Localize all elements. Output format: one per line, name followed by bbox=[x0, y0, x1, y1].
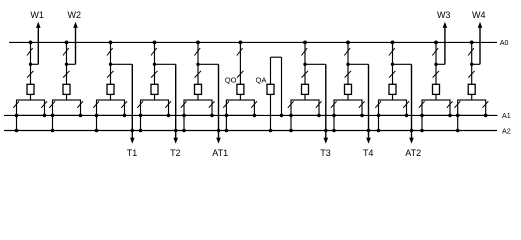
arrowhead T1 bbox=[130, 138, 135, 144]
svg-text:W1: W1 bbox=[30, 10, 44, 20]
junction dot leg 9 jog bbox=[391, 63, 394, 66]
corner slash right, winding 8 bbox=[359, 101, 365, 108]
corner slash left, winding 6 bbox=[223, 101, 229, 108]
arrowhead W4 bbox=[478, 22, 483, 28]
jog wire leg 1 to branch W1 bbox=[31, 63, 39, 65]
junction dot winding 7 on A2 bbox=[289, 129, 293, 133]
switch slash lower, leg 7 bbox=[302, 71, 308, 78]
junction dot T1 on A2 bbox=[131, 129, 134, 132]
terminal line W1 (up arrow) bbox=[37, 28, 39, 64]
junction dots winding 9 on A1 bbox=[377, 114, 381, 118]
wire winding 3 left side down to A2 bbox=[96, 115, 98, 130]
junction dot winding 11 on A2 bbox=[456, 129, 460, 133]
junction dot leg 11 jog bbox=[470, 63, 473, 66]
terminal line AT2 (down arrow) bbox=[411, 64, 413, 137]
svg-text:QO: QO bbox=[225, 75, 237, 84]
switch slash upper, leg 7 bbox=[301, 48, 307, 55]
wire winding 9 left side down to A2 bbox=[378, 115, 380, 130]
contact square leg 4 bbox=[151, 84, 158, 94]
contact square leg 9 bbox=[389, 84, 396, 94]
junction dot QA drop on A1 bbox=[280, 114, 284, 118]
tap leg 7: wire from bus A0 down to contact bbox=[304, 42, 306, 84]
switch slash lower, leg 4 bbox=[151, 71, 157, 78]
svg-text:T1: T1 bbox=[127, 148, 138, 158]
junction dots winding 5 on A1 bbox=[182, 114, 186, 118]
junction dot QA riser on A2 bbox=[269, 129, 273, 133]
terminal line T1 (down arrow) bbox=[131, 64, 133, 137]
junction dot winding 5 on A2 bbox=[182, 129, 186, 133]
winding rectangle leg 11 bbox=[458, 100, 486, 115]
switch slash upper, leg 8 bbox=[344, 48, 350, 55]
junction dot leg 8 on A0 bbox=[346, 41, 350, 45]
corner slash left, winding 3 bbox=[93, 101, 99, 108]
contact square leg 3 bbox=[107, 84, 114, 94]
junction dot leg 2 jog bbox=[65, 63, 68, 66]
contact square QA bbox=[267, 84, 274, 94]
corner slash left, winding 7 bbox=[288, 101, 294, 108]
junction dot leg 10 on A0 bbox=[434, 41, 438, 45]
contact square leg 10 bbox=[433, 84, 440, 94]
corner slash left, winding 8 bbox=[331, 101, 337, 108]
link wire square to winding, leg 3 bbox=[110, 94, 112, 100]
wire winding 1 left side down to A2 bbox=[16, 115, 18, 130]
switch slash upper, leg 9 bbox=[389, 48, 395, 55]
terminal line T4 (down arrow) bbox=[368, 64, 370, 137]
junction dot leg 11 on A0 bbox=[470, 41, 474, 45]
svg-text:A1: A1 bbox=[502, 111, 511, 120]
junction dot AT1 on A2 bbox=[217, 129, 220, 132]
junction dot leg 3 jog bbox=[109, 63, 112, 66]
svg-text:A0: A0 bbox=[500, 38, 509, 47]
link wire square to winding, leg 10 bbox=[435, 94, 437, 100]
link wire square to winding, leg 9 bbox=[392, 94, 394, 100]
switch slash lower, leg 1 bbox=[27, 71, 33, 78]
bus A0 (top rail) bbox=[9, 41, 497, 43]
contact square leg 2 bbox=[63, 84, 70, 94]
junction dots winding 2 on A1 bbox=[51, 114, 55, 118]
winding rectangle leg 3 bbox=[97, 100, 125, 115]
winding rectangle leg 2 bbox=[53, 100, 81, 115]
switch slash upper, leg 11 bbox=[468, 48, 474, 55]
arrowhead T2 bbox=[173, 138, 178, 144]
link wire square to winding, leg 1 bbox=[30, 94, 32, 100]
winding rectangle leg 6 bbox=[226, 100, 254, 115]
switch slash upper, leg 5 bbox=[194, 48, 200, 55]
corner slash left, winding 1 bbox=[13, 101, 19, 108]
svg-text:W3: W3 bbox=[437, 10, 451, 20]
tap leg 4: wire from bus A0 down to contact bbox=[154, 42, 156, 84]
tap leg 10: wire from bus A0 down to contact bbox=[435, 42, 437, 84]
junction dot leg 10 jog bbox=[434, 63, 437, 66]
corner slash right, winding 7 bbox=[316, 101, 322, 108]
junction dots winding 6 on A1 bbox=[225, 114, 229, 118]
link wire square to winding, leg 8 bbox=[347, 94, 349, 100]
link wire square to winding, leg 6 bbox=[239, 94, 241, 100]
junction dot T3 on A2 bbox=[324, 129, 327, 132]
svg-text:AT1: AT1 bbox=[212, 148, 228, 158]
junction dot leg 4 on A0 bbox=[153, 41, 157, 45]
arrowhead W1 bbox=[36, 22, 41, 28]
jog wire leg 11 to branch W4 bbox=[472, 63, 480, 65]
terminal line W3 (up arrow) bbox=[444, 28, 446, 64]
corner slash left, winding 9 bbox=[375, 101, 381, 108]
contactor QA: left riser wire from A2 bbox=[270, 57, 272, 84]
junction dots winding 1 on A1 bbox=[15, 114, 19, 118]
switch slash lower, leg 9 bbox=[389, 71, 395, 78]
svg-text:T2: T2 bbox=[170, 148, 181, 158]
switch slash lower, leg 3 bbox=[107, 71, 113, 78]
junction dot winding 6 on A2 bbox=[225, 129, 229, 133]
junction dots winding 8 on A1 bbox=[332, 114, 336, 118]
arrowhead T3 bbox=[324, 138, 329, 144]
junction dot winding 4 on A2 bbox=[139, 129, 143, 133]
svg-text:A2: A2 bbox=[502, 127, 511, 136]
corner slash right, winding 5 bbox=[209, 101, 215, 108]
junction dot leg 4 jog bbox=[153, 63, 156, 66]
switch slash lower, leg 5 bbox=[195, 71, 201, 78]
jog wire leg 4 to branch T2 bbox=[155, 63, 176, 65]
corner slash left, winding 5 bbox=[181, 101, 187, 108]
corner slash left, winding 2 bbox=[49, 101, 55, 108]
arrowhead AT2 bbox=[409, 138, 414, 144]
contactor QA right drop wire to A1 bbox=[281, 57, 283, 115]
jog wire leg 10 to branch W3 bbox=[436, 63, 445, 65]
tap leg 11: wire from bus A0 down to contact bbox=[471, 42, 473, 84]
junction dot leg 5 jog bbox=[196, 63, 199, 66]
switch slash upper, leg 3 bbox=[107, 48, 113, 55]
wire winding 5 left side down to A2 bbox=[183, 115, 185, 130]
corner slash right, winding 6 bbox=[251, 101, 257, 108]
winding rectangle leg 8 bbox=[334, 100, 362, 115]
winding rectangle leg 4 bbox=[141, 100, 169, 115]
junction dot leg 5 on A0 bbox=[196, 41, 200, 45]
svg-text:T3: T3 bbox=[320, 148, 331, 158]
wire winding 8 left side down to A2 bbox=[333, 115, 335, 130]
corner slash right, winding 11 bbox=[483, 101, 489, 108]
winding rectangle leg 1 bbox=[17, 100, 45, 115]
svg-text:AT2: AT2 bbox=[405, 148, 421, 158]
jog wire leg 3 to branch T1 bbox=[111, 63, 133, 65]
terminal line T2 (down arrow) bbox=[175, 64, 177, 137]
contactor QA loop top wire bbox=[271, 56, 282, 58]
link wire square to winding, leg 5 bbox=[197, 94, 199, 100]
winding rectangle leg 10 bbox=[422, 100, 450, 115]
winding rectangle leg 7 bbox=[291, 100, 319, 115]
bus A2 (bottom rail) bbox=[4, 130, 497, 132]
junction dot leg 2 on A0 bbox=[65, 41, 69, 45]
switch slash lower, leg 6 bbox=[237, 71, 243, 78]
contact square leg 8 bbox=[345, 84, 352, 94]
corner slash right, winding 2 bbox=[77, 101, 83, 108]
corner slash left, winding 4 bbox=[137, 101, 143, 108]
wire winding 10 left side down to A2 bbox=[421, 115, 423, 130]
junction dot leg 8 jog bbox=[346, 63, 349, 66]
arrowhead T4 bbox=[366, 138, 371, 144]
corner slash right, winding 10 bbox=[447, 101, 453, 108]
junction dot leg 6 on A0 bbox=[239, 41, 243, 45]
junction dot leg 1 jog bbox=[29, 63, 32, 66]
bus A1 (middle rail) bbox=[4, 114, 498, 116]
jog wire leg 9 to branch AT2 bbox=[393, 63, 412, 65]
corner slash right, winding 9 bbox=[403, 101, 409, 108]
svg-text:QA: QA bbox=[256, 75, 268, 84]
winding rectangle leg 5 bbox=[184, 100, 212, 115]
junction dot AT2 on A2 bbox=[410, 129, 413, 132]
corner slash right, winding 4 bbox=[165, 101, 171, 108]
arrowhead W3 bbox=[443, 22, 448, 28]
switch slash lower, leg 8 bbox=[345, 71, 351, 78]
contact square leg 7 bbox=[302, 84, 309, 94]
terminal line T3 (down arrow) bbox=[325, 64, 327, 137]
junction dot leg 7 on A0 bbox=[303, 41, 307, 45]
junction dots winding 7 on A1 bbox=[289, 114, 293, 118]
junction dot winding 8 on A2 bbox=[332, 129, 336, 133]
wire winding 11 left side down to A2 bbox=[457, 115, 459, 130]
link wire square to winding, leg 11 bbox=[471, 94, 473, 100]
switch slash upper, leg 4 bbox=[151, 48, 157, 55]
switch slash upper, leg 2 bbox=[63, 48, 69, 55]
contact square leg 6 bbox=[237, 84, 244, 94]
svg-text:W2: W2 bbox=[68, 10, 82, 20]
link wire square to winding, leg 4 bbox=[154, 94, 156, 100]
corner slash left, winding 11 bbox=[455, 101, 461, 108]
corner slash right, winding 3 bbox=[121, 101, 127, 108]
junction dot T2 on A2 bbox=[174, 129, 177, 132]
junction dots winding 10 on A1 bbox=[420, 114, 424, 118]
terminal line W2 (up arrow) bbox=[75, 28, 77, 64]
svg-text:W4: W4 bbox=[472, 10, 486, 20]
wire winding 2 left side down to A2 bbox=[52, 115, 54, 130]
junction dot winding 9 on A2 bbox=[377, 129, 381, 133]
tap leg 9: wire from bus A0 down to contact bbox=[392, 42, 394, 84]
junction dots winding 4 on A1 bbox=[139, 114, 143, 118]
junction dot winding 1 on A2 bbox=[15, 129, 19, 133]
junction dot winding 2 on A2 bbox=[51, 129, 55, 133]
arrowhead AT1 bbox=[216, 138, 221, 144]
corner slash right, winding 1 bbox=[41, 101, 47, 108]
junction dots winding 3 on A1 bbox=[95, 114, 99, 118]
tap leg 8: wire from bus A0 down to contact bbox=[347, 42, 349, 84]
wire winding 6 left side down to A2 bbox=[225, 115, 227, 130]
switch slash lower, leg 10 bbox=[433, 71, 439, 78]
jog wire leg 5 to branch AT1 bbox=[198, 63, 219, 65]
junction dot winding 3 on A2 bbox=[95, 129, 99, 133]
switch slash lower, leg 11 bbox=[468, 71, 474, 78]
tap leg 6: wire from bus A0 down to contact bbox=[239, 42, 241, 84]
contact square leg 5 bbox=[195, 84, 202, 94]
jog wire leg 2 to branch W2 bbox=[67, 63, 76, 65]
junction dots winding 11 on A1 bbox=[456, 114, 460, 118]
junction dot leg 1 on A0 bbox=[29, 41, 33, 45]
wire winding 7 left side down to A2 bbox=[290, 115, 292, 130]
arrowhead W2 bbox=[73, 22, 78, 28]
contact square leg 11 bbox=[468, 84, 475, 94]
terminal line W4 (up arrow) bbox=[479, 28, 481, 64]
junction dot winding 10 on A2 bbox=[420, 129, 424, 133]
tap leg 1: wire from bus A0 down to contact bbox=[30, 42, 32, 84]
junction dot T4 on A2 bbox=[367, 129, 370, 132]
tap leg 3: wire from bus A0 down to contact bbox=[110, 42, 112, 84]
switch slash upper, leg 6 bbox=[237, 48, 243, 55]
tap leg 5: wire from bus A0 down to contact bbox=[197, 42, 199, 84]
junction dot leg 3 on A0 bbox=[109, 41, 113, 45]
jog wire leg 7 to branch T3 bbox=[305, 63, 326, 65]
link wire square to winding, leg 2 bbox=[66, 94, 68, 100]
contact square leg 1 bbox=[27, 84, 34, 94]
svg-text:T4: T4 bbox=[363, 148, 374, 158]
switch slash upper, leg 10 bbox=[432, 48, 438, 55]
junction dot leg 7 jog bbox=[303, 63, 306, 66]
jog wire leg 8 to branch T4 bbox=[348, 63, 369, 65]
corner slash left, winding 10 bbox=[419, 101, 425, 108]
switch slash lower, leg 2 bbox=[63, 71, 69, 78]
wire winding 4 left side down to A2 bbox=[140, 115, 142, 130]
link wire square to winding, leg 7 bbox=[304, 94, 306, 100]
tap leg 2: wire from bus A0 down to contact bbox=[66, 42, 68, 84]
switch slash upper, leg 1 bbox=[27, 48, 33, 55]
winding rectangle leg 9 bbox=[379, 100, 407, 115]
terminal line AT1 (down arrow) bbox=[218, 64, 220, 137]
junction dot leg 9 on A0 bbox=[391, 41, 395, 45]
